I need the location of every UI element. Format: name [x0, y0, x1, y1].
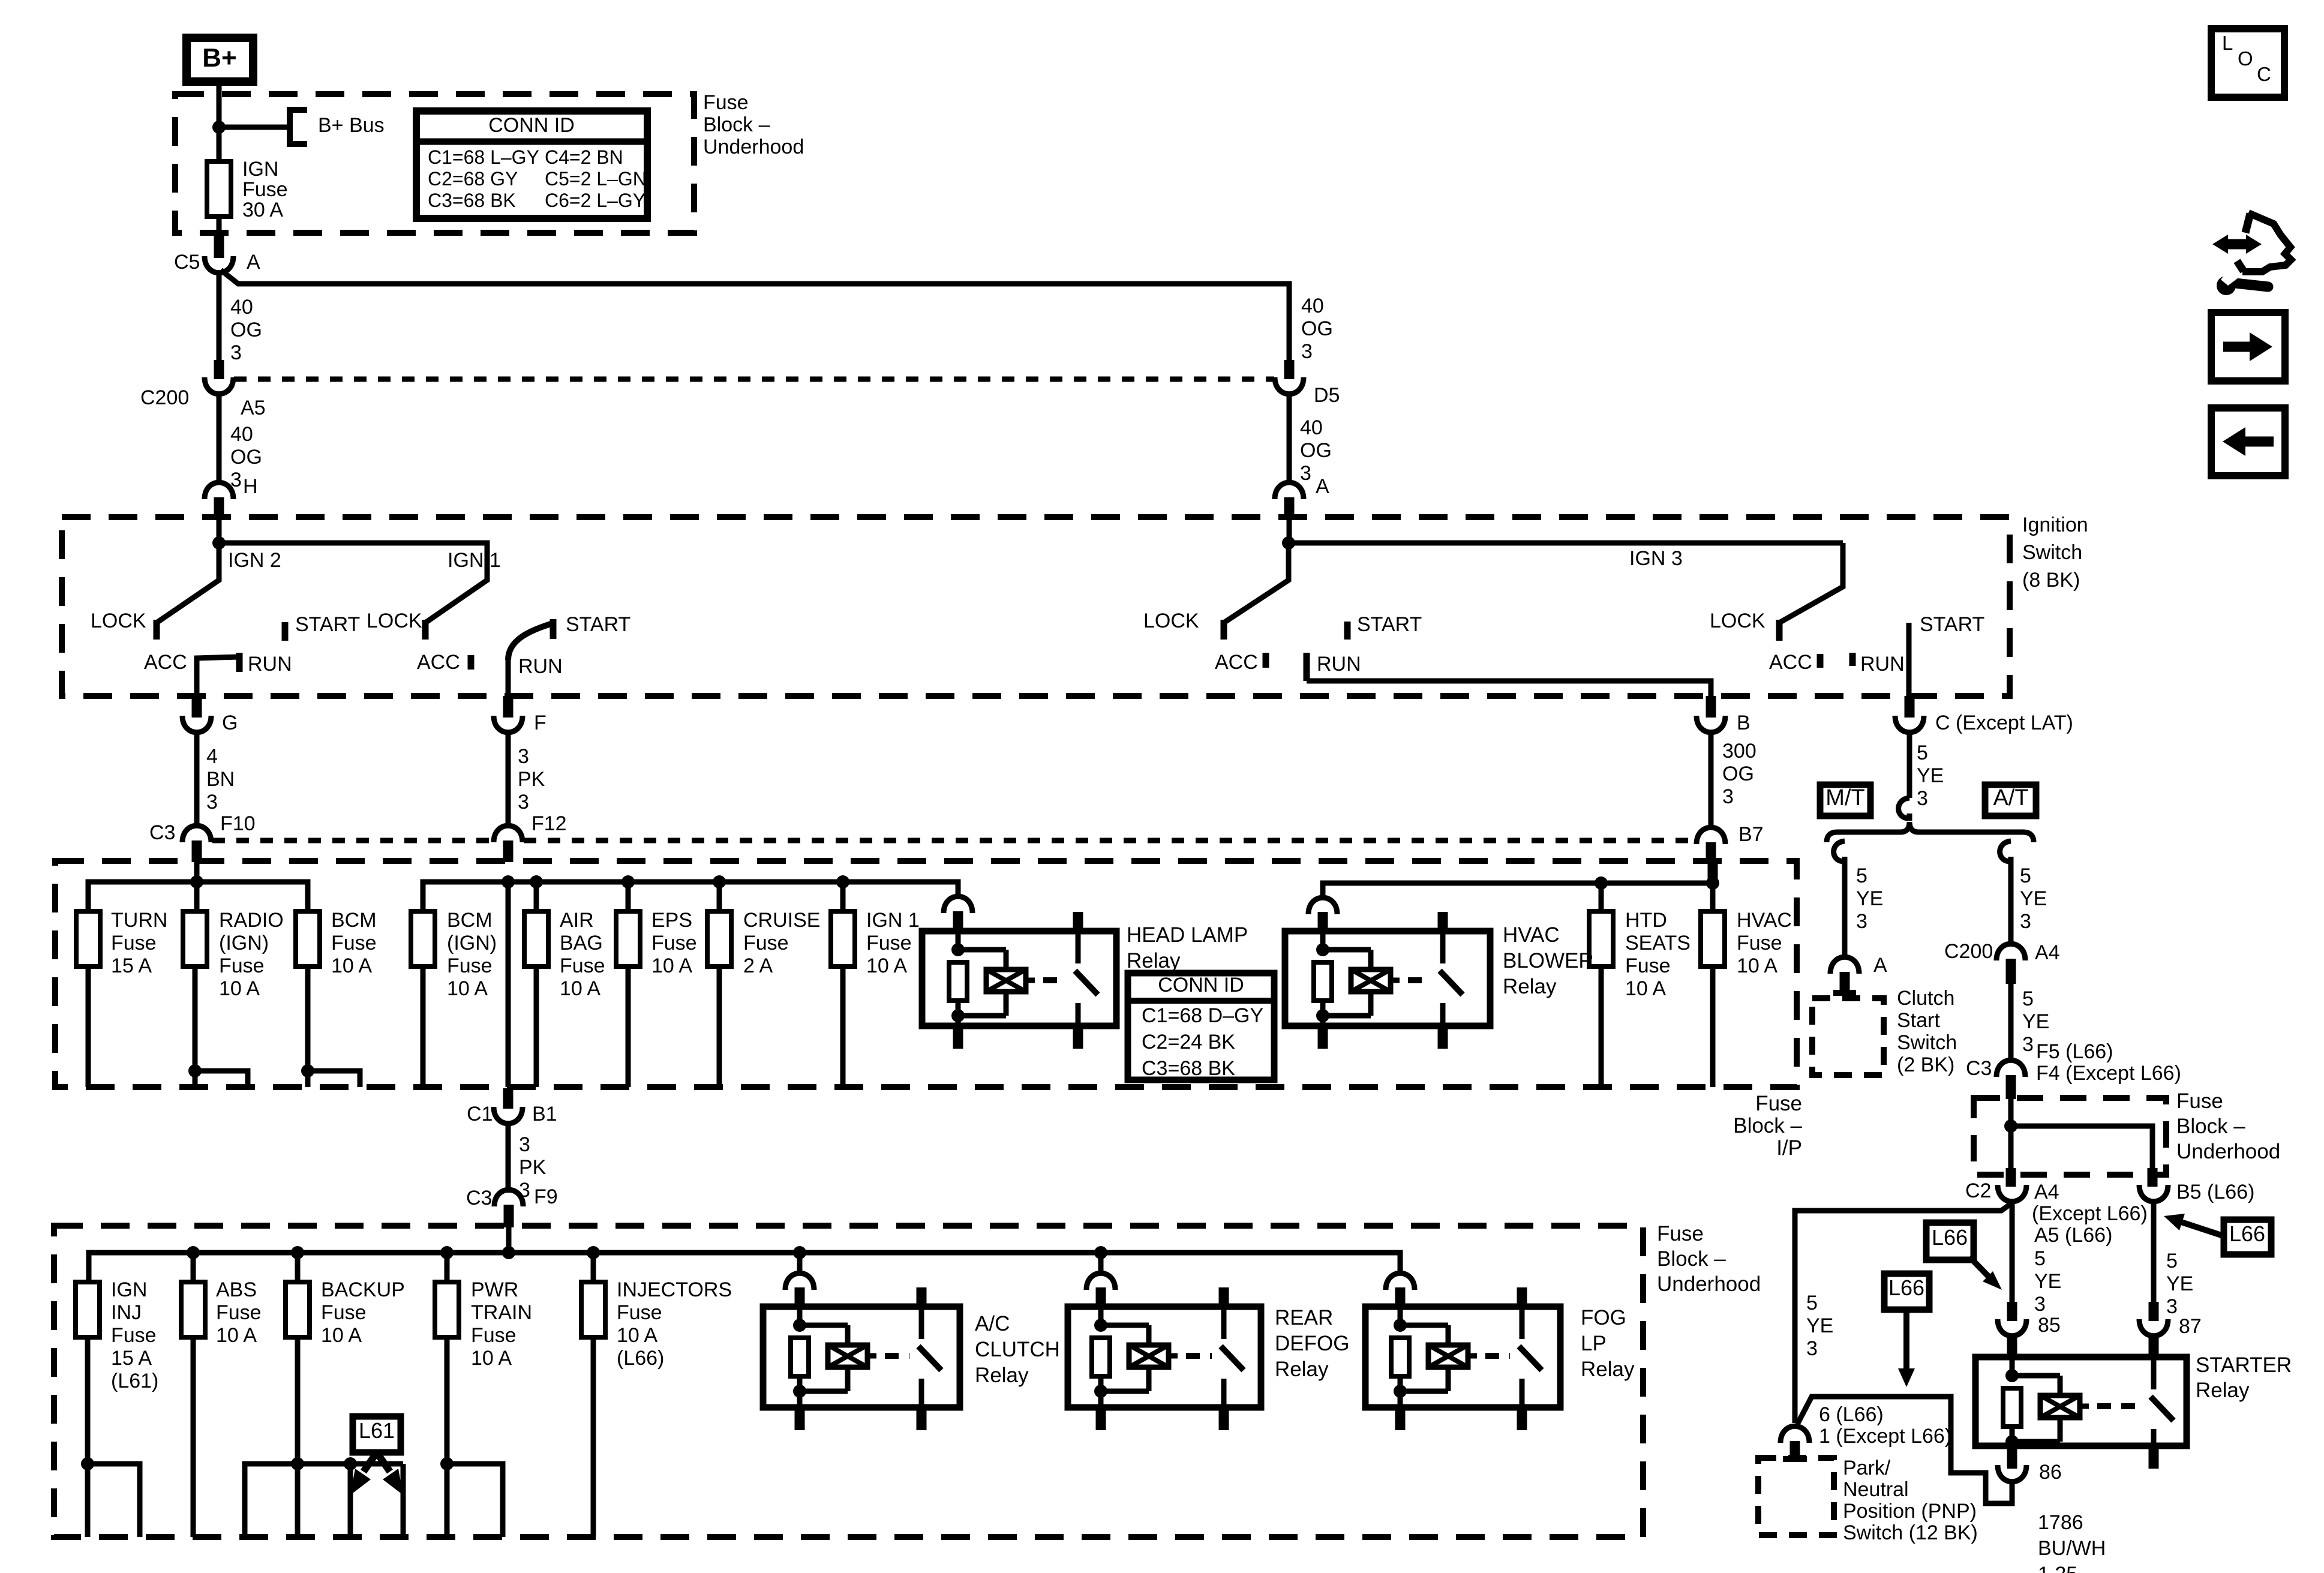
svg-text:O: O — [2238, 47, 2253, 70]
svg-text:C3=68 BK: C3=68 BK — [1142, 1057, 1235, 1080]
svg-text:86: 86 — [2039, 1461, 2062, 1484]
option tag L66 #1 — [1926, 1223, 1974, 1260]
svg-text:Fuse: Fuse — [111, 932, 157, 954]
label PWR TRAIN Fuse 10 A — [471, 1278, 532, 1370]
label 5 YE 3 (85) — [2034, 1247, 2061, 1316]
wire BCM fuse out — [301, 966, 360, 1087]
svg-text:(IGN): (IGN) — [447, 932, 497, 954]
pin C1 — [503, 1088, 514, 1109]
svg-text:10 A: 10 A — [219, 977, 260, 1000]
svg-text:5: 5 — [2034, 1247, 2046, 1270]
connector A (ignition) — [1275, 482, 1304, 518]
svg-text:START: START — [566, 613, 630, 636]
CONN ID table 2 frame — [1128, 973, 1274, 1080]
wire A/T branch — [2008, 861, 2014, 946]
connector G — [182, 716, 211, 733]
svg-text:3: 3 — [1917, 787, 1928, 810]
CONN ID table 1 frame — [416, 111, 647, 218]
svg-text:10 A: 10 A — [617, 1324, 657, 1347]
label START (IGN3) — [1357, 613, 1422, 636]
label A (clutch) — [1873, 954, 1887, 977]
contact tick LOCK (IGN2) — [154, 620, 160, 640]
label HVAC BLOWER Relay — [1503, 923, 1594, 998]
svg-text:3: 3 — [1856, 910, 1867, 933]
label RUN (IGN2) — [248, 653, 292, 676]
wire PNP diag to 86 run — [1797, 1397, 2012, 1503]
wire M/T branch — [1842, 861, 1848, 959]
svg-text:3: 3 — [206, 791, 218, 813]
switch curve RUN-START (IGN1) — [508, 624, 551, 660]
svg-text:ACC: ACC — [144, 651, 187, 674]
svg-text:C: C — [2257, 63, 2271, 85]
svg-text:Fuse: Fuse — [111, 1324, 157, 1347]
wire C2 to PNP drop — [1795, 1205, 2010, 1423]
svg-text:C200: C200 — [1944, 940, 1993, 963]
pin B7 into I/P — [1708, 862, 1718, 883]
junction dot IGN3 — [1282, 536, 1295, 550]
svg-text:Block –: Block – — [1657, 1247, 1726, 1271]
icon wrench — [2217, 269, 2268, 295]
label F — [534, 712, 547, 734]
fuse block underhood (right) dashed box — [1974, 1098, 2166, 1175]
svg-text:BN: BN — [206, 768, 235, 791]
svg-text:L66: L66 — [2229, 1221, 2265, 1246]
svg-text:Relay: Relay — [2196, 1379, 2250, 1402]
svg-text:RUN: RUN — [248, 653, 292, 676]
svg-text:C6=2 L–GY: C6=2 L–GY — [545, 190, 645, 211]
svg-text:A4: A4 — [2035, 941, 2060, 964]
CONN ID table 1 rows — [428, 146, 647, 211]
svg-text:Fuse: Fuse — [703, 91, 749, 114]
svg-text:F: F — [534, 712, 547, 734]
label G — [222, 712, 238, 734]
svg-text:(8 BK): (8 BK) — [2022, 569, 2080, 592]
svg-text:A4: A4 — [2034, 1181, 2059, 1203]
label C3 (right) — [1966, 1057, 1992, 1080]
rear defog relay coil connector — [1086, 1273, 1115, 1307]
fog lp relay coil connector — [1386, 1273, 1415, 1307]
connector 86 — [1998, 1465, 2026, 1482]
svg-text:Block –: Block – — [2176, 1115, 2245, 1138]
junction dot EPS — [621, 875, 635, 888]
connector C3/F4 — [1996, 1060, 2025, 1099]
wire IGN INJ out — [81, 1337, 140, 1537]
svg-text:TRAIN: TRAIN — [471, 1301, 532, 1324]
bus wire group1 — [88, 882, 308, 911]
CONN ID table 2 rows — [1142, 1004, 1263, 1080]
svg-text:Fuse: Fuse — [1625, 954, 1671, 977]
svg-text:Fuse: Fuse — [331, 932, 377, 954]
svg-text:10 A: 10 A — [1737, 954, 1777, 977]
connector B — [1697, 716, 1725, 733]
svg-text:SEATS: SEATS — [1625, 932, 1691, 954]
svg-text:YE: YE — [2022, 1010, 2049, 1033]
label C (Except LAT) — [1935, 712, 2073, 734]
svg-text:YE: YE — [2166, 1272, 2193, 1295]
icon double arrow — [2212, 235, 2262, 254]
svg-text:30 A: 30 A — [242, 199, 283, 221]
pin C200 A5 — [214, 360, 224, 379]
label Ignition Switch (8 BK) — [2022, 514, 2088, 592]
pin C — [1905, 696, 1915, 718]
wire C5 down — [217, 271, 222, 365]
svg-text:5: 5 — [1917, 742, 1928, 764]
svg-text:Relay: Relay — [975, 1364, 1029, 1387]
svg-text:Switch: Switch — [1897, 1031, 1957, 1054]
svg-text:10 A: 10 A — [216, 1324, 257, 1347]
label C3 (F9) — [466, 1187, 492, 1209]
svg-text:YE: YE — [1856, 887, 1883, 910]
svg-text:B+ Bus: B+ Bus — [318, 114, 385, 137]
svg-text:START: START — [1920, 613, 1984, 636]
svg-text:2 A: 2 A — [743, 954, 773, 977]
svg-text:B1: B1 — [532, 1103, 557, 1125]
svg-text:D5: D5 — [1314, 384, 1340, 407]
svg-text:CLUTCH: CLUTCH — [975, 1338, 1060, 1361]
svg-text:Fuse: Fuse — [447, 954, 493, 977]
svg-text:HEAD LAMP: HEAD LAMP — [1127, 923, 1248, 947]
wire F12 through I/P — [506, 882, 511, 1087]
svg-text:IGN 1: IGN 1 — [866, 909, 920, 932]
label C1 — [467, 1103, 493, 1125]
svg-text:C3: C3 — [466, 1187, 492, 1209]
A/C clutch relay — [763, 1287, 960, 1430]
fog lp relay — [1365, 1287, 1560, 1430]
connector 6/1 (PNP) — [1780, 1426, 1809, 1459]
svg-text:300: 300 — [1722, 740, 1756, 763]
wire ABS out — [191, 1337, 196, 1537]
svg-text:C3=68 BK: C3=68 BK — [428, 190, 516, 211]
label C200 (A4) — [1944, 940, 1993, 963]
svg-text:PK: PK — [518, 768, 545, 791]
wire break curl (C) — [1899, 798, 1909, 821]
svg-text:C4=2 BN: C4=2 BN — [545, 146, 623, 168]
wire PWR TRAIN out — [440, 1337, 503, 1537]
inline connector line C200 — [234, 377, 1274, 382]
svg-text:F4 (Except L66): F4 (Except L66) — [2036, 1062, 2181, 1085]
wire to B+ Bus — [219, 125, 290, 130]
svg-text:F9: F9 — [534, 1185, 558, 1208]
svg-text:Clutch: Clutch — [1897, 987, 1954, 1010]
wire BACKUP out — [245, 1337, 403, 1537]
svg-text:OG: OG — [1301, 317, 1333, 340]
label 40 OG 3 (left lower) — [230, 423, 262, 491]
wire HVAC fuse out — [1710, 966, 1716, 1087]
svg-text:Underhood: Underhood — [2176, 1140, 2280, 1163]
fuse BCM 10A — [296, 911, 320, 966]
label B7 — [1739, 823, 1764, 846]
contact tick LOCK (IGN3) — [1221, 620, 1227, 640]
junction dot BACKUP — [291, 1246, 304, 1282]
svg-text:Position (PNP): Position (PNP) — [1843, 1500, 1977, 1523]
svg-text:Fuse: Fuse — [617, 1301, 662, 1324]
nav box arrow left — [2211, 408, 2285, 476]
bus wire lower — [89, 1253, 1400, 1282]
svg-text:Underhood: Underhood — [1657, 1272, 1761, 1296]
wire C200 to C3 (right) — [2008, 984, 2014, 1062]
svg-text:3: 3 — [2034, 1293, 2046, 1316]
svg-text:LOCK: LOCK — [91, 610, 146, 632]
connector 87 — [2139, 1319, 2168, 1336]
svg-text:START: START — [1357, 613, 1422, 636]
rear defog relay — [1068, 1287, 1261, 1430]
label 1 (Except L66) — [1819, 1425, 1951, 1448]
contact tick ACC (IGN3) — [1263, 653, 1269, 668]
wire B+ to IGN fuse — [217, 83, 222, 161]
fuse INJECTORS 10A — [581, 1282, 605, 1337]
svg-text:A: A — [1316, 475, 1329, 498]
svg-text:HTD: HTD — [1625, 909, 1667, 932]
svg-text:YE: YE — [1806, 1314, 1833, 1337]
svg-text:85: 85 — [2038, 1314, 2061, 1337]
svg-text:BU/WH: BU/WH — [2038, 1537, 2106, 1560]
junction dot HTD SEATS — [1595, 876, 1608, 911]
label FOG LP Relay — [1581, 1306, 1635, 1381]
svg-text:Switch: Switch — [2022, 541, 2082, 564]
label Clutch Start Switch (2 BK) — [1897, 987, 1957, 1076]
svg-text:(IGN): (IGN) — [219, 932, 269, 954]
svg-text:3: 3 — [518, 745, 529, 768]
svg-text:3: 3 — [519, 1133, 530, 1156]
label Fuse Block - Underhood (right) — [2176, 1089, 2280, 1163]
label C5 — [174, 251, 200, 274]
wire INJECTORS out — [591, 1337, 596, 1537]
svg-text:C1=68 D–GY: C1=68 D–GY — [1142, 1004, 1263, 1027]
label EPS Fuse 10 A — [651, 909, 697, 977]
label ACC (IGN3) — [1215, 651, 1258, 674]
svg-text:HVAC: HVAC — [1737, 909, 1792, 932]
svg-text:Relay: Relay — [1127, 949, 1181, 972]
svg-text:LOCK: LOCK — [1143, 610, 1199, 632]
label BCM Fuse 10 A — [331, 909, 377, 977]
svg-text:BACKUP: BACKUP — [321, 1278, 405, 1301]
label 86 — [2039, 1461, 2062, 1484]
svg-text:BCM: BCM — [331, 909, 377, 932]
label IGN 3 — [1629, 547, 1683, 570]
svg-text:3: 3 — [1300, 462, 1311, 485]
svg-text:3: 3 — [2022, 1033, 2034, 1056]
junction dot ABS — [187, 1246, 200, 1282]
fuse block underhood (lower) dashed box — [54, 1226, 1643, 1537]
svg-text:A5 (L66): A5 (L66) — [2034, 1224, 2112, 1247]
label RUN (IGN3) — [1317, 653, 1361, 676]
wire C2 to 85 — [2010, 1200, 2015, 1321]
svg-text:10 A: 10 A — [321, 1324, 362, 1347]
wire BCM(IGN) fuse out — [421, 966, 426, 1087]
A/C clutch relay coil connector — [785, 1273, 814, 1307]
svg-text:Fuse: Fuse — [321, 1301, 367, 1324]
svg-text:AIR: AIR — [560, 909, 594, 932]
wire IGN1 fuse out — [840, 966, 846, 1087]
label ACC (right) — [1769, 651, 1812, 674]
svg-text:Fuse: Fuse — [560, 954, 605, 977]
svg-text:IGN 1: IGN 1 — [448, 549, 501, 572]
wire TURN fuse out — [86, 966, 91, 1087]
svg-text:Fuse: Fuse — [219, 954, 265, 977]
svg-text:A/C: A/C — [975, 1312, 1010, 1335]
svg-text:Neutral: Neutral — [1843, 1478, 1909, 1501]
label B1 — [532, 1103, 557, 1125]
label F12 — [532, 812, 567, 835]
svg-text:5: 5 — [2166, 1250, 2178, 1272]
svg-text:INJ: INJ — [111, 1301, 142, 1324]
svg-text:40: 40 — [230, 296, 253, 319]
svg-text:IGN: IGN — [111, 1278, 147, 1301]
svg-text:10 A: 10 A — [447, 977, 488, 1000]
svg-text:15 A: 15 A — [111, 954, 152, 977]
nav box arrow right — [2211, 313, 2285, 381]
svg-text:3: 3 — [2166, 1295, 2178, 1318]
fuse ABS 10A — [181, 1282, 205, 1337]
label F9 — [534, 1185, 558, 1208]
contact tick RUN (IGN3) — [1304, 653, 1310, 681]
label A4 (C2) — [2034, 1181, 2059, 1203]
svg-text:(L66): (L66) — [617, 1347, 664, 1370]
wire AIR BAG fuse out — [534, 966, 539, 1087]
label 85 — [2038, 1314, 2061, 1337]
label 3 PK 3 (C1) — [519, 1133, 547, 1202]
head lamp relay — [922, 912, 1116, 1049]
junction dot IGN2 — [212, 536, 226, 550]
label 3 PK 3 — [518, 745, 545, 813]
svg-text:ACC: ACC — [1215, 651, 1258, 674]
connector C200/A4 — [1996, 944, 2025, 984]
label 87 — [2179, 1315, 2202, 1338]
svg-text:IGN 3: IGN 3 — [1629, 547, 1683, 570]
fuse IGN INJ 15A — [76, 1282, 100, 1337]
label IGN 1 — [448, 549, 501, 572]
fuse TURN 15A — [76, 911, 100, 966]
svg-text:LOCK: LOCK — [367, 610, 422, 632]
label C2 — [1965, 1179, 1991, 1202]
svg-text:Switch (12 BK): Switch (12 BK) — [1843, 1521, 1978, 1544]
connector F — [494, 716, 523, 733]
label 5 YE 3 (PNP wire) — [1806, 1292, 1833, 1360]
fuse RADIO (IGN) 10A — [183, 911, 207, 966]
wire C5 branch right — [221, 270, 1289, 365]
svg-text:1786: 1786 — [2038, 1511, 2083, 1534]
junction dot INJECTORS — [587, 1246, 600, 1282]
option tag L66 #2 — [1884, 1274, 1929, 1310]
svg-text:RUN: RUN — [1317, 653, 1361, 676]
junction dot B+ bus tap — [212, 121, 226, 134]
svg-text:REAR: REAR — [1275, 1306, 1333, 1329]
svg-text:F10: F10 — [220, 812, 256, 835]
svg-text:(2 BK): (2 BK) — [1897, 1053, 1954, 1076]
svg-text:HVAC: HVAC — [1503, 923, 1560, 947]
svg-text:RADIO: RADIO — [219, 909, 284, 932]
svg-text:G: G — [222, 712, 238, 734]
svg-text:B5 (L66): B5 (L66) — [2176, 1181, 2254, 1203]
svg-text:10 A: 10 A — [331, 954, 372, 977]
svg-text:B+: B+ — [202, 43, 236, 73]
svg-text:10 A: 10 A — [866, 954, 907, 977]
fuse HTD SEATS 10A — [1589, 911, 1613, 966]
label HEAD LAMP Relay — [1127, 923, 1248, 972]
label 40 OG 3 (right upper) — [1301, 295, 1333, 363]
svg-text:OG: OG — [1722, 763, 1754, 785]
svg-text:Relay: Relay — [1581, 1358, 1635, 1381]
svg-text:3: 3 — [1806, 1337, 1818, 1360]
label START (right) — [1920, 613, 1984, 636]
label B5 (L66) — [2176, 1181, 2254, 1203]
svg-text:C2=24 BK: C2=24 BK — [1142, 1031, 1235, 1053]
wire F to F12 — [506, 731, 511, 828]
label START (IGN1) — [566, 613, 630, 636]
junction dot PWR TRAIN — [440, 1246, 454, 1282]
connector A (clutch) — [1830, 957, 1859, 993]
svg-text:15 A: 15 A — [111, 1347, 152, 1370]
svg-text:Fuse: Fuse — [743, 932, 789, 954]
fuse block underhood (top) dashed box — [175, 94, 694, 233]
svg-text:PWR: PWR — [471, 1278, 518, 1301]
junction dot IGN1 fuse — [836, 875, 849, 888]
label START (IGN2) — [295, 613, 360, 636]
contact tick START (IGN2) — [282, 622, 289, 641]
svg-text:L61: L61 — [359, 1418, 395, 1443]
brace M/T-A/T — [1827, 822, 2034, 842]
label BCM (IGN) Fuse 10 A — [447, 909, 497, 1000]
svg-text:B7: B7 — [1739, 823, 1764, 846]
contact tick START (IGN3) — [1344, 622, 1351, 640]
junction dot AIR BAG — [530, 875, 543, 888]
CONN ID table 2 title — [1158, 974, 1244, 996]
svg-text:IGN: IGN — [242, 158, 278, 181]
svg-text:PK: PK — [519, 1156, 547, 1179]
contact tick ACC (IGN1) — [468, 655, 475, 670]
fuse HVAC 10A — [1701, 911, 1725, 966]
riser EPS — [626, 882, 631, 911]
contact tick START (IGN1) — [550, 619, 557, 639]
junction dot CRUISE — [713, 875, 726, 888]
svg-text:YE: YE — [1917, 764, 1944, 787]
label ACC (IGN1) — [417, 651, 460, 674]
wire B5 to 87 — [2151, 1200, 2157, 1321]
switch blade IGN3 — [1224, 543, 1289, 623]
svg-text:5: 5 — [1856, 864, 1867, 887]
label IGN Fuse 30 A — [242, 158, 288, 221]
junction dot B7 feed — [1706, 876, 1719, 890]
svg-text:3: 3 — [1301, 340, 1313, 363]
riser IGN1 — [840, 882, 846, 911]
label BACKUP Fuse 10 A — [321, 1278, 405, 1347]
bus wire group2 — [423, 882, 958, 911]
svg-text:10 A: 10 A — [471, 1347, 512, 1370]
svg-text:10 A: 10 A — [1625, 977, 1666, 1000]
label Fuse Block - I/P — [1733, 1092, 1802, 1160]
switch blade IGN3-right — [1779, 543, 1843, 623]
svg-text:3: 3 — [230, 341, 242, 364]
svg-text:FOG: FOG — [1581, 1306, 1626, 1329]
svg-text:INJECTORS: INJECTORS — [617, 1278, 732, 1301]
bus wire group3 — [1323, 883, 1713, 911]
svg-text:L66: L66 — [1888, 1275, 1924, 1300]
svg-text:B: B — [1737, 712, 1750, 734]
fuse block I/P dashed box — [55, 861, 1797, 1087]
wire HTD SEATS fuse out — [1599, 966, 1604, 1087]
svg-text:LOCK: LOCK — [1710, 610, 1765, 632]
svg-text:3: 3 — [518, 791, 529, 813]
svg-text:Fuse: Fuse — [866, 932, 912, 954]
connector C — [1895, 716, 1924, 733]
pin C200 D5 — [1284, 360, 1295, 379]
junction dot C3 feed — [190, 862, 203, 911]
contact tick ACC (right) — [1817, 654, 1824, 668]
contact tick LOCK (IGN1) — [422, 620, 429, 640]
svg-text:5: 5 — [2020, 864, 2031, 887]
tag box A/T — [1985, 785, 2036, 816]
wire inside right box — [2008, 1099, 2014, 1187]
